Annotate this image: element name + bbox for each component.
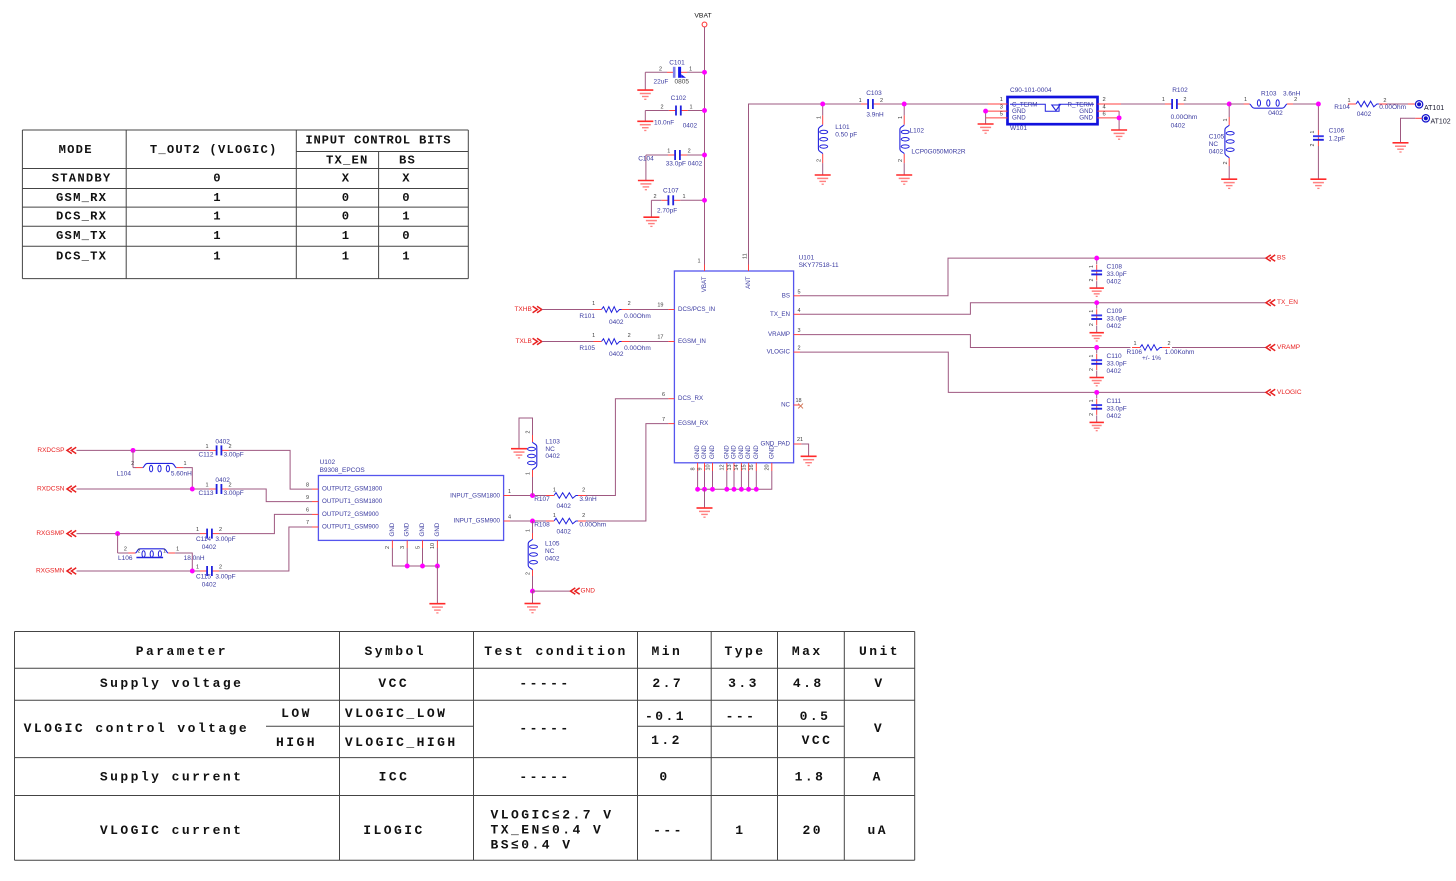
- svg-text:1: 1: [689, 66, 692, 72]
- svg-text:TX_EN: TX_EN: [1277, 299, 1298, 306]
- svg-text:C102: C102: [671, 95, 687, 102]
- svg-text:Max: Max: [792, 644, 823, 659]
- wire L106 to RXGSMN: [175, 553, 192, 571]
- svg-text:1.8: 1.8: [795, 770, 826, 785]
- wire RXDCSN net: [77, 488, 210, 490]
- svg-text:19: 19: [657, 303, 663, 309]
- wire pin1 U102 to R107: [510, 495, 547, 497]
- svg-text:STANDBY: STANDBY: [52, 172, 112, 186]
- svg-text:L104: L104: [117, 471, 132, 478]
- junction C107/VBAT: [702, 198, 707, 203]
- svg-text:W101: W101: [1010, 125, 1027, 132]
- ground (C101): [637, 89, 653, 91]
- svg-text:X: X: [402, 172, 411, 186]
- wire R104 to AT101: [1387, 103, 1408, 105]
- wire VBAT rail: [704, 27, 706, 265]
- junction RXGSMP/L106: [115, 531, 120, 536]
- port VRAMP: [1266, 344, 1300, 351]
- svg-text:ICC: ICC: [379, 770, 410, 785]
- svg-text:U101: U101: [799, 255, 815, 262]
- svg-text:ANT: ANT: [745, 276, 752, 289]
- svg-text:1: 1: [667, 149, 670, 155]
- svg-text:1: 1: [342, 229, 351, 243]
- svg-text:Supply voltage: Supply voltage: [100, 676, 244, 691]
- capacitor C114 3.00pF: [196, 527, 236, 551]
- coupler W101 C90-101-0004: [986, 87, 1121, 132]
- ground (C102): [637, 120, 653, 122]
- svg-text:1: 1: [553, 513, 556, 519]
- svg-text:33.0pF: 33.0pF: [1107, 361, 1127, 368]
- ground (U102): [429, 603, 445, 605]
- svg-text:1: 1: [817, 116, 823, 119]
- svg-text:2: 2: [1089, 368, 1095, 371]
- svg-text:VRAMP: VRAMP: [768, 331, 790, 338]
- wire L104 tap: [132, 450, 134, 467]
- power flag VBAT: [694, 13, 711, 27]
- svg-text:GND: GND: [738, 445, 745, 459]
- wire AT102 to ground: [1415, 117, 1422, 119]
- svg-text:C103: C103: [866, 90, 882, 97]
- svg-text:0.5: 0.5: [800, 709, 831, 724]
- svg-text:RXGSMN: RXGSMN: [36, 568, 65, 575]
- svg-text:1: 1: [213, 229, 222, 243]
- ground (W101 left): [978, 123, 994, 125]
- svg-text:C112: C112: [198, 452, 213, 459]
- svg-text:RXDCSP: RXDCSP: [37, 447, 64, 454]
- svg-text:2: 2: [628, 301, 631, 307]
- svg-text:-0.1: -0.1: [645, 709, 686, 724]
- svg-text:1: 1: [1162, 97, 1165, 103]
- svg-text:1: 1: [508, 489, 511, 495]
- svg-text:1: 1: [213, 250, 222, 264]
- svg-text:0402: 0402: [545, 555, 560, 562]
- svg-text:0: 0: [402, 229, 411, 243]
- inductor L101: [817, 104, 858, 175]
- svg-text:DCS_RX: DCS_RX: [678, 395, 703, 402]
- svg-text:7: 7: [306, 520, 309, 526]
- svg-text:4: 4: [508, 515, 511, 521]
- svg-text:NC: NC: [545, 548, 555, 555]
- svg-text:1: 1: [1310, 130, 1316, 133]
- svg-text:9: 9: [697, 467, 703, 470]
- svg-text:0805: 0805: [675, 78, 690, 85]
- svg-text:1: 1: [205, 444, 208, 450]
- svg-text:DCS/PCS_IN: DCS/PCS_IN: [678, 306, 715, 313]
- svg-text:1: 1: [402, 210, 411, 224]
- svg-text:C111: C111: [1107, 398, 1122, 405]
- junctions GND bus: [695, 487, 700, 492]
- svg-text:3.9nH: 3.9nH: [866, 112, 884, 119]
- svg-text:20: 20: [765, 464, 771, 470]
- svg-text:GND: GND: [1012, 115, 1026, 122]
- svg-text:3: 3: [400, 546, 406, 549]
- svg-text:1: 1: [213, 191, 222, 205]
- capacitor C111 33.0pF: [1089, 392, 1127, 422]
- svg-text:2: 2: [1383, 98, 1386, 104]
- svg-text:1.00Kohm: 1.00Kohm: [1165, 349, 1195, 356]
- svg-text:16: 16: [749, 464, 755, 470]
- svg-text:1: 1: [196, 564, 199, 570]
- svg-text:3.9nH: 3.9nH: [579, 496, 597, 503]
- junction W101 pins 3/5: [983, 109, 988, 114]
- wire RXGSMP net: [77, 533, 201, 535]
- svg-text:OUTPUT1_GSM900: OUTPUT1_GSM900: [322, 524, 379, 531]
- junction C111 tap: [1094, 390, 1099, 395]
- svg-text:0402: 0402: [1357, 111, 1372, 118]
- svg-text:2: 2: [628, 333, 631, 339]
- capacitor C104: [638, 149, 704, 181]
- wire R101 to pin19: [630, 309, 669, 311]
- svg-text:V: V: [874, 721, 884, 736]
- junction L104/RXDCSN: [190, 487, 195, 492]
- capacitor C109 33.0pF: [1089, 303, 1127, 333]
- resistor R106 1.00Kohm: [1127, 341, 1195, 362]
- svg-text:0402: 0402: [683, 123, 698, 130]
- junction C108 tap: [1094, 256, 1099, 261]
- svg-text:LCP0G050M0R2R: LCP0G050M0R2R: [911, 149, 965, 156]
- svg-text:BS: BS: [1277, 255, 1286, 262]
- svg-text:1: 1: [1000, 97, 1003, 103]
- inductor L103 (NC): [519, 418, 560, 496]
- svg-text:---: ---: [726, 709, 757, 724]
- ground (C107): [643, 216, 659, 218]
- svg-text:Parameter: Parameter: [136, 644, 228, 659]
- svg-text:2: 2: [798, 346, 801, 352]
- svg-text:R101: R101: [579, 313, 595, 320]
- capacitor C113 3.00pF: [198, 477, 243, 497]
- svg-text:10: 10: [430, 543, 436, 549]
- svg-text:GSM_RX: GSM_RX: [56, 191, 107, 205]
- svg-text:C90-101-0004: C90-101-0004: [1010, 87, 1052, 94]
- svg-text:+/- 1%: +/- 1%: [1142, 355, 1161, 362]
- junction C105 tap: [1227, 102, 1232, 107]
- junction L105 tap: [530, 519, 535, 524]
- svg-text:3.00pF: 3.00pF: [224, 490, 244, 497]
- connector AT102: [1422, 115, 1451, 126]
- svg-text:1: 1: [682, 194, 685, 200]
- svg-text:7: 7: [662, 417, 665, 423]
- svg-text:5: 5: [415, 546, 421, 549]
- svg-text:2: 2: [1167, 341, 1170, 347]
- svg-text:1: 1: [697, 259, 700, 265]
- svg-text:22uF: 22uF: [654, 78, 669, 85]
- svg-text:2: 2: [582, 513, 585, 519]
- port TX_EN: [1266, 299, 1298, 306]
- svg-text:10.0nF: 10.0nF: [654, 119, 674, 126]
- resistor R108 0 ohm: [534, 513, 606, 536]
- port RXGSMP: [36, 530, 76, 537]
- svg-text:VLOGIC: VLOGIC: [767, 349, 791, 356]
- svg-text:EGSM_IN: EGSM_IN: [678, 338, 706, 345]
- svg-text:VBAT: VBAT: [701, 276, 708, 292]
- svg-text:2: 2: [1089, 279, 1095, 282]
- svg-text:1: 1: [342, 250, 351, 264]
- svg-text:3: 3: [1000, 105, 1003, 111]
- svg-text:0402: 0402: [609, 351, 624, 358]
- svg-text:Symbol: Symbol: [364, 644, 426, 659]
- svg-text:18.0nH: 18.0nH: [184, 555, 205, 562]
- wire TX_EN net: [800, 303, 1266, 315]
- svg-text:0402: 0402: [1171, 123, 1186, 130]
- svg-text:2: 2: [898, 159, 904, 162]
- ground (GND_PAD): [801, 455, 817, 457]
- svg-text:1: 1: [553, 488, 556, 494]
- svg-text:GND: GND: [404, 522, 411, 536]
- svg-text:L106: L106: [118, 555, 133, 562]
- svg-text:T_OUT2 (VLOGIC): T_OUT2 (VLOGIC): [150, 143, 278, 157]
- junction L105/GND port: [530, 589, 535, 594]
- svg-text:NC: NC: [781, 402, 790, 409]
- svg-text:0402: 0402: [1107, 323, 1122, 330]
- svg-text:18: 18: [796, 398, 802, 404]
- svg-text:2: 2: [131, 461, 134, 467]
- junction C109 tap: [1094, 300, 1099, 305]
- svg-text:5: 5: [798, 290, 801, 296]
- svg-text:Unit: Unit: [859, 644, 900, 659]
- svg-text:2.7: 2.7: [652, 676, 683, 691]
- svg-text:1: 1: [213, 210, 222, 224]
- table: electrical parameters: [15, 632, 915, 861]
- svg-text:DCS_RX: DCS_RX: [56, 210, 107, 224]
- ground (L103): [511, 448, 527, 450]
- svg-text:R107: R107: [534, 496, 550, 503]
- wire W101 gnd right: [1118, 111, 1120, 130]
- svg-text:0.00Ohm: 0.00Ohm: [624, 345, 651, 352]
- svg-text:2: 2: [880, 98, 883, 104]
- svg-text:2: 2: [1294, 97, 1297, 103]
- svg-text:GND: GND: [581, 588, 596, 595]
- junction L101 tap: [820, 102, 825, 107]
- port BS: [1266, 255, 1286, 262]
- svg-text:1: 1: [592, 333, 595, 339]
- svg-text:LOW: LOW: [281, 706, 312, 721]
- svg-text:VLOGIC≤2.7 V: VLOGIC≤2.7 V: [491, 807, 614, 822]
- port GND: [571, 588, 596, 595]
- svg-text:C109: C109: [1107, 308, 1123, 315]
- inductor L105 (NC): [526, 521, 560, 591]
- svg-text:L101: L101: [835, 124, 850, 131]
- svg-text:2: 2: [138, 548, 141, 554]
- svg-text:5.60nH: 5.60nH: [171, 471, 192, 478]
- svg-text:2: 2: [1223, 161, 1229, 164]
- svg-text:V: V: [874, 676, 884, 691]
- svg-text:EGSM_RX: EGSM_RX: [678, 420, 708, 427]
- svg-text:GND: GND: [753, 445, 760, 459]
- svg-text:1: 1: [526, 472, 532, 475]
- wire GND port: [533, 590, 571, 592]
- ground (U101 GND): [697, 507, 713, 509]
- svg-text:1: 1: [1223, 118, 1229, 121]
- svg-text:3.6nH: 3.6nH: [1283, 91, 1301, 98]
- svg-text:GND: GND: [389, 522, 396, 536]
- svg-text:2: 2: [582, 488, 585, 494]
- svg-text:L103: L103: [545, 438, 560, 445]
- svg-text:GND: GND: [434, 522, 441, 536]
- svg-text:0.00Ohm: 0.00Ohm: [624, 313, 651, 320]
- svg-text:33.0pF: 33.0pF: [1107, 316, 1127, 323]
- svg-text:2: 2: [219, 527, 222, 533]
- ground (C110): [1090, 377, 1104, 379]
- svg-text:0402: 0402: [556, 503, 571, 510]
- svg-text:TX_EN: TX_EN: [770, 311, 790, 318]
- svg-text:2: 2: [653, 194, 656, 200]
- junction L106/RXGSMN: [190, 569, 195, 574]
- svg-text:2: 2: [1103, 97, 1106, 103]
- wire U102 GND to ground: [436, 566, 438, 604]
- svg-text:ILOGIC: ILOGIC: [363, 823, 425, 838]
- svg-text:0402: 0402: [609, 319, 624, 326]
- svg-text:C108: C108: [1107, 264, 1123, 271]
- wire VRAMP net: [800, 335, 1131, 348]
- svg-text:L102: L102: [910, 127, 925, 134]
- svg-text:VLOGIC_HIGH: VLOGIC_HIGH: [345, 735, 458, 750]
- svg-text:U102: U102: [320, 459, 336, 466]
- port TXLB: [516, 338, 542, 345]
- svg-text:0.50 pF: 0.50 pF: [835, 131, 857, 138]
- ground (C105): [1221, 178, 1237, 180]
- svg-text:1: 1: [1133, 341, 1136, 347]
- svg-text:BS: BS: [399, 153, 416, 167]
- svg-text:0402: 0402: [202, 581, 217, 588]
- wire L104 to RXDCSN: [183, 468, 192, 489]
- svg-text:NC: NC: [1209, 141, 1219, 148]
- svg-text:---: ---: [653, 823, 684, 838]
- svg-text:GND: GND: [723, 445, 730, 459]
- capacitor C112 3.00pF: [198, 439, 243, 459]
- svg-text:VBAT: VBAT: [694, 13, 711, 20]
- resistor R104 0 ohm: [1334, 98, 1406, 118]
- svg-text:0402: 0402: [545, 453, 560, 460]
- svg-text:SKY77518-11: SKY77518-11: [799, 262, 839, 269]
- svg-text:14: 14: [734, 464, 740, 470]
- svg-text:1: 1: [859, 98, 862, 104]
- svg-text:8: 8: [690, 467, 696, 470]
- svg-text:1: 1: [163, 548, 166, 554]
- svg-text:Test condition: Test condition: [484, 644, 628, 659]
- svg-text:DCS_TX: DCS_TX: [56, 250, 107, 264]
- junction C104/VBAT: [702, 153, 707, 158]
- svg-text:33.0pF: 33.0pF: [1107, 271, 1127, 278]
- IC U101 SKY77518-11: [657, 253, 839, 471]
- svg-text:X: X: [342, 172, 351, 186]
- ground (C109): [1090, 332, 1104, 334]
- svg-text:0402: 0402: [1107, 279, 1122, 286]
- svg-text:OUTPUT2_GSM900: OUTPUT2_GSM900: [322, 511, 379, 518]
- svg-text:0.00Ohm: 0.00Ohm: [1379, 104, 1406, 111]
- ground (L105): [525, 603, 541, 605]
- svg-text:C110: C110: [1107, 353, 1122, 360]
- svg-text:2: 2: [228, 483, 231, 489]
- svg-text:1.2: 1.2: [651, 733, 682, 748]
- svg-text:BS: BS: [782, 292, 790, 299]
- svg-text:TX_EN≤0.4 V: TX_EN≤0.4 V: [491, 823, 604, 838]
- svg-text:2: 2: [1089, 323, 1095, 326]
- svg-text:TX_EN: TX_EN: [326, 153, 369, 167]
- svg-text:R105: R105: [579, 345, 595, 352]
- svg-text:1: 1: [183, 461, 186, 467]
- inductor L104 5.60nH: [117, 461, 193, 478]
- svg-text:0402: 0402: [1209, 149, 1224, 156]
- capacitor C106: [1310, 104, 1345, 179]
- svg-text:2: 2: [688, 149, 691, 155]
- svg-text:2: 2: [124, 547, 127, 553]
- svg-text:GND: GND: [1079, 115, 1093, 122]
- svg-text:GND_PAD: GND_PAD: [761, 441, 791, 448]
- svg-text:1: 1: [205, 483, 208, 489]
- svg-text:TXLB: TXLB: [516, 338, 532, 345]
- ground (C106): [1310, 178, 1326, 180]
- svg-text:INPUT_GSM1800: INPUT_GSM1800: [450, 493, 500, 500]
- svg-text:21: 21: [797, 437, 803, 443]
- svg-text:GND: GND: [419, 522, 426, 536]
- svg-text:2: 2: [817, 159, 823, 162]
- svg-text:4: 4: [798, 308, 801, 314]
- svg-text:B9308_EPCOS: B9308_EPCOS: [320, 467, 366, 474]
- svg-text:2: 2: [219, 564, 222, 570]
- svg-text:0: 0: [342, 210, 351, 224]
- svg-text:VRAMP: VRAMP: [1277, 344, 1300, 351]
- svg-text:GND: GND: [701, 445, 708, 459]
- svg-text:TXHB: TXHB: [514, 306, 531, 313]
- svg-text:0: 0: [342, 191, 351, 205]
- svg-text:uA: uA: [867, 823, 888, 838]
- ground (AT102): [1393, 142, 1409, 144]
- capacitor C107: [651, 188, 704, 218]
- svg-text:L105: L105: [545, 540, 560, 547]
- svg-text:4.8: 4.8: [793, 676, 824, 691]
- svg-text:6: 6: [662, 392, 665, 398]
- IC U102 B9308_EPCOS: [306, 459, 511, 549]
- svg-text:1.2pF: 1.2pF: [1329, 136, 1346, 143]
- svg-text:Supply current: Supply current: [100, 770, 244, 785]
- svg-text:0402: 0402: [556, 529, 571, 536]
- svg-text:2: 2: [228, 444, 231, 450]
- svg-text:-----: -----: [519, 676, 570, 691]
- svg-text:13: 13: [727, 464, 733, 470]
- svg-text:0402: 0402: [1107, 413, 1122, 420]
- svg-text:3.00pF: 3.00pF: [224, 452, 244, 459]
- svg-text:VLOGIC: VLOGIC: [1277, 389, 1302, 396]
- svg-text:GND: GND: [745, 445, 752, 459]
- svg-text:C101: C101: [669, 60, 685, 67]
- wire L105 to ground: [532, 591, 534, 603]
- junction C101/VBAT: [702, 70, 707, 75]
- wire TXLB to R105: [542, 341, 594, 343]
- svg-text:1: 1: [689, 104, 692, 110]
- resistor R107 3.9nH: [534, 488, 597, 511]
- svg-text:0.00Ohm: 0.00Ohm: [579, 522, 606, 529]
- svg-text:-----: -----: [519, 770, 570, 785]
- junction C102/VBAT: [702, 108, 707, 113]
- svg-text:AT102: AT102: [1431, 118, 1451, 125]
- capacitor C115 3.00pF: [196, 564, 236, 588]
- svg-text:OUTPUT2_GSM1800: OUTPUT2_GSM1800: [322, 486, 383, 493]
- svg-text:3.3: 3.3: [728, 676, 759, 691]
- svg-text:GSM_TX: GSM_TX: [56, 229, 107, 243]
- svg-text:2: 2: [526, 572, 532, 575]
- wire VLOGIC net: [800, 352, 1266, 392]
- svg-text:0: 0: [659, 770, 669, 785]
- junction RXDCSP/L104: [131, 448, 136, 453]
- svg-text:R104: R104: [1334, 104, 1350, 111]
- wire pin4 U102 to R108: [510, 520, 547, 522]
- svg-text:AT101: AT101: [1424, 105, 1444, 112]
- wire TXHB to R101: [542, 309, 594, 311]
- svg-text:1: 1: [592, 301, 595, 307]
- ground (C104): [638, 180, 654, 182]
- svg-text:MODE: MODE: [59, 143, 93, 157]
- svg-text:1: 1: [735, 823, 745, 838]
